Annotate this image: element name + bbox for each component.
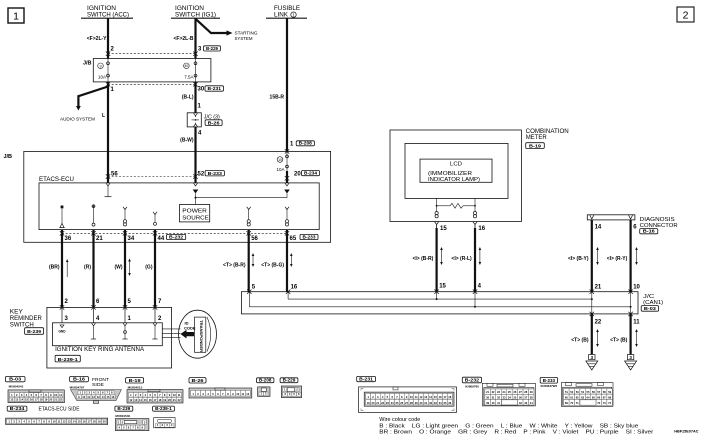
svg-text:<I> (B-Y): <I> (B-Y) [568,256,589,262]
svg-text:35: 35 [513,396,516,400]
svg-text:POWER: POWER [182,208,207,214]
svg-text:B-16: B-16 [73,377,85,383]
svg-text:39: 39 [486,401,489,405]
svg-text:16: 16 [30,398,33,402]
svg-text:36: 36 [65,236,72,242]
svg-text:66: 66 [597,396,600,400]
svg-text:10: 10 [53,420,56,424]
svg-text:27: 27 [405,401,408,405]
svg-text:<F>2L-B: <F>2L-B [173,36,193,42]
svg-text:20: 20 [49,398,52,402]
svg-text:23: 23 [497,390,500,394]
svg-text:64: 64 [587,396,590,400]
svg-text:ETACS-ECU SIDE: ETACS-ECU SIDE [39,407,80,413]
svg-text:16: 16 [111,395,114,399]
svg-text:21: 21 [376,401,379,405]
svg-text:34: 34 [508,396,511,400]
svg-text:59: 59 [608,390,611,394]
svg-text:B-232: B-232 [465,378,480,384]
svg-text:7.5A: 7.5A [184,74,193,79]
svg-text:MU804515: MU804515 [128,386,143,390]
svg-text:B-234: B-234 [10,406,25,412]
svg-text:25: 25 [508,390,511,394]
svg-text:B-208: B-208 [299,141,313,147]
svg-text:<F>2L-Y: <F>2L-Y [87,36,107,42]
svg-text:CODE: CODE [184,325,196,330]
svg-text:14: 14 [73,420,76,424]
svg-text:33: 33 [434,401,437,405]
svg-text:51: 51 [565,390,568,394]
svg-text:15: 15 [439,283,446,289]
svg-text:13: 13 [68,420,71,424]
svg-text:30: 30 [198,87,205,93]
svg-text:16: 16 [291,284,298,290]
svg-text:22: 22 [178,398,181,402]
svg-text:STARTING: STARTING [235,31,258,36]
svg-text:18: 18 [40,398,43,402]
svg-text:2: 2 [683,10,689,22]
svg-text:11: 11 [241,392,244,396]
svg-text:B-26: B-26 [192,378,204,384]
svg-text:34: 34 [439,401,442,405]
svg-text:42: 42 [519,401,522,405]
svg-text:10: 10 [410,395,413,399]
svg-text:<T> (B-G): <T> (B-G) [261,263,284,269]
svg-text:68: 68 [608,396,611,400]
svg-text:62: 62 [576,396,579,400]
svg-text:11: 11 [58,420,61,424]
svg-text:MU804797: MU804797 [70,386,85,390]
svg-text:14: 14 [139,398,142,402]
svg-text:10: 10 [82,395,85,399]
svg-text:10: 10 [54,393,57,397]
svg-text:15: 15 [107,395,110,399]
svg-text:BR : Brown O : Orange GR: BR : Brown O : Orange GR : Grey R : Red … [379,430,653,435]
svg-text:31: 31 [424,401,427,405]
svg-text:56: 56 [251,236,258,242]
svg-text:28: 28 [410,401,413,405]
svg-text:24: 24 [391,401,394,405]
svg-text:26: 26 [513,390,516,394]
svg-text:12: 12 [10,398,13,402]
svg-text:HBF15E07AC: HBF15E07AC [674,430,699,434]
svg-text:54: 54 [581,390,584,394]
svg-text:<T> (B-R): <T> (B-R) [223,263,246,269]
svg-text:SWITCH (IG1): SWITCH (IG1) [175,13,216,19]
svg-text:15: 15 [78,420,81,424]
svg-text:LINK: LINK [274,13,288,19]
svg-text:12: 12 [246,392,249,396]
svg-text:(IMMOBILIZER: (IMMOBILIZER [428,171,472,177]
svg-text:B-239: B-239 [117,406,130,412]
svg-text:60: 60 [565,396,568,400]
svg-text:29: 29 [530,390,533,394]
svg-text:KEY: KEY [10,310,23,316]
svg-text:IGNITION: IGNITION [175,6,204,12]
svg-text:19: 19 [44,398,47,402]
svg-text:COMBINATION: COMBINATION [526,129,569,135]
svg-text:65: 65 [290,236,297,242]
svg-text:30: 30 [486,396,489,400]
svg-text:B-234: B-234 [304,171,317,177]
svg-text:72: 72 [597,401,600,405]
svg-text:B-03: B-03 [9,377,21,383]
svg-text:17: 17 [35,398,38,402]
svg-text:21: 21 [595,284,602,290]
svg-text:57: 57 [597,390,600,394]
svg-text:1: 1 [13,11,19,23]
svg-text:GND: GND [58,330,66,334]
svg-text:18: 18 [93,420,96,424]
svg-text:21: 21 [96,236,103,242]
svg-text:13: 13 [424,395,427,399]
svg-text:10: 10 [173,393,176,397]
svg-text:21: 21 [486,390,489,394]
svg-text:44: 44 [530,401,533,405]
svg-text:ETACS-ECU: ETACS-ECU [39,177,74,183]
svg-text:19: 19 [163,398,166,402]
svg-text:27: 27 [519,390,522,394]
svg-text:(B-L): (B-L) [182,94,194,100]
svg-text:INDICATOR LAMP): INDICATOR LAMP) [428,177,480,183]
svg-text:20: 20 [168,398,171,402]
svg-text:55: 55 [587,390,590,394]
svg-text:69: 69 [565,401,568,405]
svg-text:12: 12 [129,398,132,402]
svg-text:65: 65 [592,396,595,400]
svg-text:58: 58 [603,390,606,394]
svg-text:(CAN1): (CAN1) [643,300,663,306]
svg-text:43: 43 [524,401,527,405]
svg-text:<I> (B-R): <I> (B-R) [412,256,433,262]
svg-text:13: 13 [15,398,18,402]
svg-text:J/B: J/B [3,154,12,160]
svg-text:22: 22 [59,398,62,402]
svg-text:22: 22 [595,319,602,325]
svg-text:L: L [102,113,105,119]
svg-text:30: 30 [420,401,423,405]
svg-text:11: 11 [415,395,418,399]
svg-text:24: 24 [502,390,505,394]
svg-text:22: 22 [381,401,384,405]
svg-text:16: 16 [439,395,442,399]
svg-text:B-229: B-229 [283,378,296,384]
svg-text:34: 34 [128,236,135,242]
svg-text:(B-W): (B-W) [180,138,194,144]
svg-text:44: 44 [158,236,165,242]
svg-text:12: 12 [420,395,423,399]
svg-text:<T> (B): <T> (B) [571,338,589,344]
svg-text:17: 17 [88,420,91,424]
svg-text:15: 15 [25,398,28,402]
svg-text:17: 17 [444,395,447,399]
svg-text:(G): (G) [145,264,153,270]
svg-text:<T> (B): <T> (B) [610,338,628,344]
svg-text:B-239-1: B-239-1 [155,406,172,412]
svg-text:38: 38 [530,396,533,400]
svg-text:AUDIO SYSTEM: AUDIO SYSTEM [60,117,95,122]
svg-text:(R): (R) [84,264,91,270]
svg-text:52: 52 [198,171,205,177]
svg-text:B-231: B-231 [208,86,222,92]
svg-text:(BR): (BR) [49,264,60,270]
svg-text:15: 15 [434,395,437,399]
svg-text:70: 70 [570,401,573,405]
svg-text:37: 37 [524,396,527,400]
svg-text:19: 19 [98,420,101,424]
svg-text:SIDE: SIDE [92,382,104,387]
svg-text:22: 22 [492,390,495,394]
svg-text:16: 16 [149,398,152,402]
svg-text:FUSIBLE: FUSIBLE [274,6,300,12]
svg-text:13: 13 [97,395,100,399]
svg-text:74: 74 [608,401,611,405]
svg-text:B-19: B-19 [529,143,541,149]
svg-text:10: 10 [633,284,640,290]
svg-text:33: 33 [502,396,505,400]
svg-text:41: 41 [497,401,500,405]
svg-text:J/B: J/B [83,61,92,67]
svg-text:18: 18 [448,395,451,399]
svg-text:B-229: B-229 [206,46,218,52]
svg-text:15: 15 [144,398,147,402]
svg-text:B-239-1: B-239-1 [58,357,79,363]
svg-text:11: 11 [633,319,640,325]
svg-text:28: 28 [524,390,527,394]
svg-text:18: 18 [158,398,161,402]
svg-text:0U809760: 0U809760 [465,385,479,389]
svg-text:32: 32 [429,401,432,405]
svg-text:B-233: B-233 [303,235,316,241]
svg-text:23: 23 [386,401,389,405]
svg-text:B-19: B-19 [129,378,141,384]
svg-text:B : Black LG : Light green: B : Black LG : Light green G : Green L :… [379,423,638,429]
svg-text:32: 32 [497,396,500,400]
svg-text:9: 9 [99,64,101,68]
svg-text:Wire colour code: Wire colour code [379,417,420,423]
svg-text:B-16: B-16 [643,229,655,235]
svg-text:25: 25 [396,401,399,405]
svg-text:67: 67 [603,396,606,400]
svg-text:19: 19 [367,401,370,405]
svg-text:0U80637W0: 0U80637W0 [541,384,558,388]
svg-text:40: 40 [185,64,189,68]
svg-text:SWITCH (ACC): SWITCH (ACC) [87,13,129,19]
svg-text:CONNECTOR: CONNECTOR [640,223,678,229]
svg-text:10: 10 [236,392,239,396]
svg-text:SYSTEM: SYSTEM [235,36,253,41]
svg-text:B-239: B-239 [27,329,41,335]
svg-text:36: 36 [448,401,451,405]
svg-text:11: 11 [87,395,90,399]
svg-text:36: 36 [519,396,522,400]
svg-text:SOURCE: SOURCE [182,215,209,221]
svg-text:10A: 10A [276,167,284,172]
svg-text:73: 73 [603,401,606,405]
svg-text:53: 53 [576,390,579,394]
svg-text:16: 16 [478,226,485,232]
svg-text:B-208: B-208 [259,378,272,384]
svg-text:<I> (R-Y): <I> (R-Y) [607,256,628,262]
svg-text:MU801546: MU801546 [115,414,130,418]
svg-text:IGNITION KEY RING ANTENNA: IGNITION KEY RING ANTENNA [55,347,144,353]
svg-text:MU804545: MU804545 [9,384,24,388]
svg-text:REMINDER: REMINDER [10,316,43,322]
svg-text:B-232: B-232 [169,235,184,241]
svg-text:B-26: B-26 [208,120,220,126]
svg-text:21: 21 [173,398,176,402]
svg-text:12: 12 [92,395,95,399]
svg-text:14: 14 [595,225,602,231]
svg-text:26: 26 [400,401,403,405]
svg-text:15: 15 [440,226,447,232]
svg-text:20: 20 [103,420,106,424]
svg-text:71: 71 [576,401,579,405]
svg-text:11: 11 [59,393,62,397]
svg-text:20: 20 [294,171,301,177]
svg-text:17: 17 [154,398,157,402]
svg-text:IGNITION: IGNITION [87,6,116,12]
svg-text:B-233: B-233 [543,378,556,384]
svg-text:B-03: B-03 [644,306,656,312]
svg-text:56: 56 [592,390,595,394]
svg-text:(W): (W) [114,264,122,270]
svg-text:14: 14 [102,395,105,399]
svg-text:13: 13 [134,398,137,402]
svg-text:<I> (R-L): <I> (R-L) [451,256,472,262]
svg-text:21: 21 [54,398,57,402]
svg-text:29: 29 [415,401,418,405]
svg-text:11: 11 [178,393,181,397]
svg-text:40: 40 [492,401,495,405]
svg-text:12: 12 [63,420,66,424]
svg-text:14: 14 [429,395,432,399]
svg-text:52: 52 [570,390,573,394]
svg-text:20: 20 [372,401,375,405]
svg-text:10: 10 [278,158,282,162]
svg-text:63: 63 [581,396,584,400]
svg-text:B-233: B-233 [208,171,223,177]
svg-text:61: 61 [570,396,573,400]
svg-text:14: 14 [20,398,23,402]
svg-text:16: 16 [83,420,86,424]
svg-text:B-231: B-231 [359,377,373,383]
svg-text:METER: METER [526,135,548,141]
svg-text:15B-R: 15B-R [270,94,285,100]
svg-text:10A: 10A [98,74,106,79]
svg-text:31: 31 [492,396,495,400]
svg-text:35: 35 [444,401,447,405]
svg-text:TRANSPONDER: TRANSPONDER [199,320,203,353]
svg-text:LCD: LCD [450,161,462,167]
